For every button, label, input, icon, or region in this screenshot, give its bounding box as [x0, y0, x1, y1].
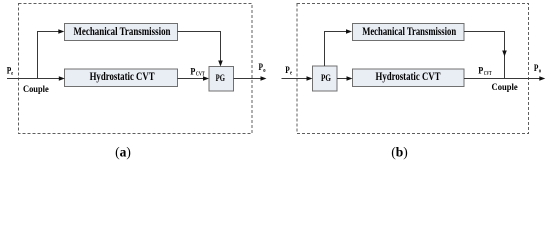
svg-text:Mechanical Transmission: Mechanical Transmission — [74, 25, 171, 38]
svg-text:CVT: CVT — [484, 70, 492, 77]
svg-text:e: e — [290, 70, 292, 77]
svg-text:(a): (a) — [115, 144, 131, 159]
svg-text:Hydrostatic CVT: Hydrostatic CVT — [376, 71, 441, 83]
svg-text:o: o — [263, 67, 265, 74]
svg-text:e: e — [11, 70, 13, 77]
svg-text:P: P — [190, 66, 195, 77]
svg-text:CVT: CVT — [196, 71, 205, 78]
svg-text:o: o — [539, 68, 541, 75]
svg-text:Mechanical Transmission: Mechanical Transmission — [362, 25, 456, 38]
svg-text:P: P — [478, 66, 483, 77]
svg-text:Hydrostatic CVT: Hydrostatic CVT — [90, 71, 155, 83]
svg-text:PG: PG — [216, 73, 226, 84]
svg-text:Couple: Couple — [23, 84, 49, 95]
svg-text:P: P — [534, 63, 539, 74]
svg-text:PG: PG — [321, 73, 331, 84]
svg-text:Couple: Couple — [492, 82, 519, 93]
svg-text:(b): (b) — [391, 144, 408, 159]
